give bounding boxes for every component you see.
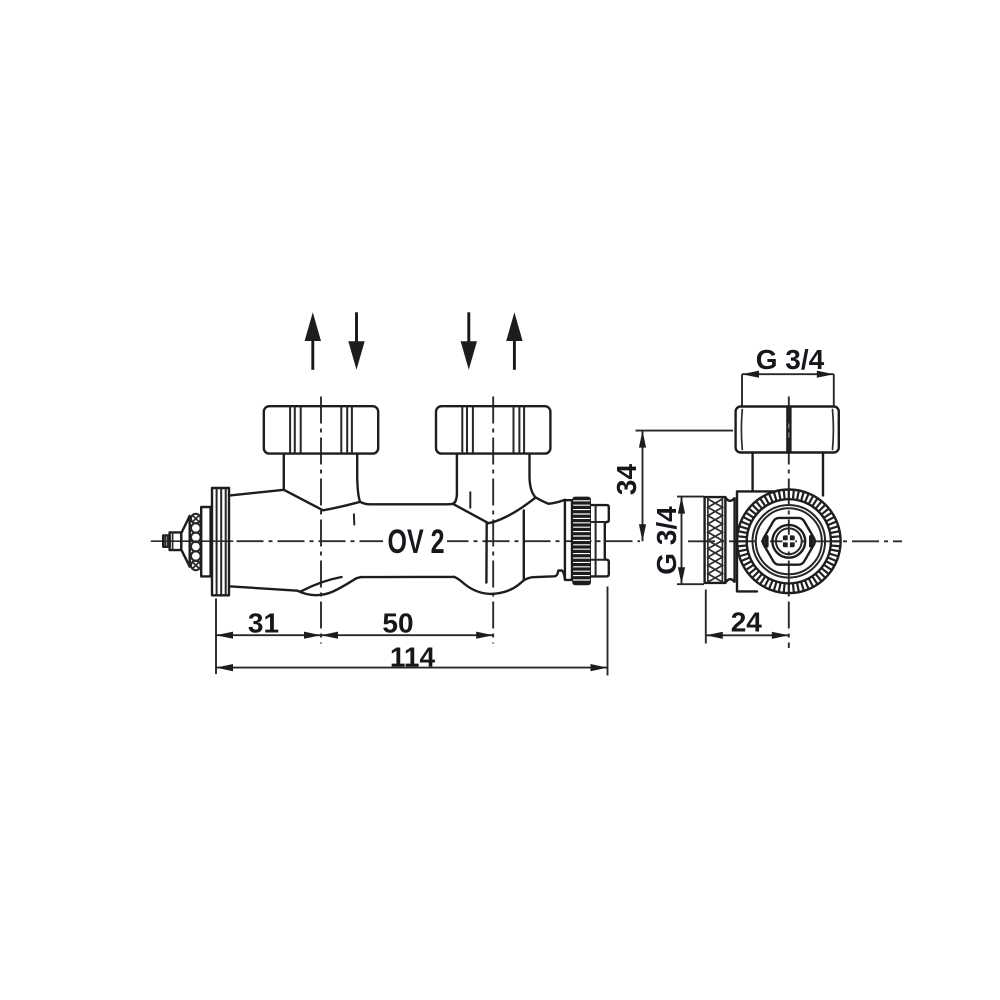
right view horizontal centerline (688, 540, 902, 542)
OV 2 label (383, 523, 447, 559)
svg-text:G 3/4: G 3/4 (756, 344, 825, 375)
G 3/4 top dimension (742, 374, 834, 405)
svg-text:50: 50 (382, 608, 413, 639)
male thread G3/4 (side) (705, 497, 726, 583)
insert stem (170, 532, 182, 550)
collar before knurled cap (565, 500, 572, 580)
handwheel hexagon grip (763, 518, 815, 565)
insert cone (181, 516, 189, 567)
inner edge lines below branches (353, 514, 355, 524)
svg-text:OV 2: OV 2 (388, 523, 445, 561)
hex vertex marks (764, 535, 768, 548)
24 dimension (706, 590, 789, 644)
G 3/4 left dimension (677, 497, 704, 585)
svg-text:114: 114 (390, 642, 436, 673)
union nut branch 1 (264, 406, 378, 453)
spindle circles (772, 525, 805, 558)
svg-text:G 3/4: G 3/4 (651, 506, 682, 575)
flow arrow down (branch 1 right) (355, 312, 358, 344)
insert flange (212, 488, 229, 595)
branch 1 centerline (320, 397, 322, 644)
lower outlet silhouette under branch 2 (486, 510, 523, 582)
extension line left end (215, 599, 217, 675)
spindle square (783, 535, 795, 547)
dimension line 31 / 50 (216, 634, 493, 636)
thermostat insert spindle tip (163, 535, 169, 546)
svg-text:24: 24 (731, 607, 763, 638)
flow arrow down (branch 2 left) (467, 312, 470, 344)
handwheel knurled rim (737, 490, 841, 594)
dimension line 114 (216, 667, 608, 669)
flow arrow up (branch 1 left) (311, 338, 314, 370)
insert collar ring (201, 507, 210, 576)
branch 2 centerline (492, 397, 494, 644)
34 dimension (636, 431, 734, 542)
handwheel rings (753, 505, 826, 578)
top union nut (right view) (736, 407, 839, 453)
body block behind handwheel (737, 491, 774, 591)
knurled cap (dark ring) (572, 497, 591, 586)
right view vertical centerline (788, 397, 790, 649)
neck below nut (753, 453, 823, 496)
valve body outline (229, 454, 565, 595)
insert knurled ring (ball column) (191, 514, 201, 524)
flow arrow up (branch 2 right) (513, 338, 516, 370)
end cap nut (591, 505, 609, 576)
union nut branch 2 (436, 406, 550, 453)
axis centerline (left view) (152, 540, 233, 542)
svg-text:34: 34 (611, 464, 642, 496)
extension line right end (607, 587, 609, 676)
svg-text:31: 31 (248, 608, 279, 639)
groove between thread and block (725, 497, 734, 582)
